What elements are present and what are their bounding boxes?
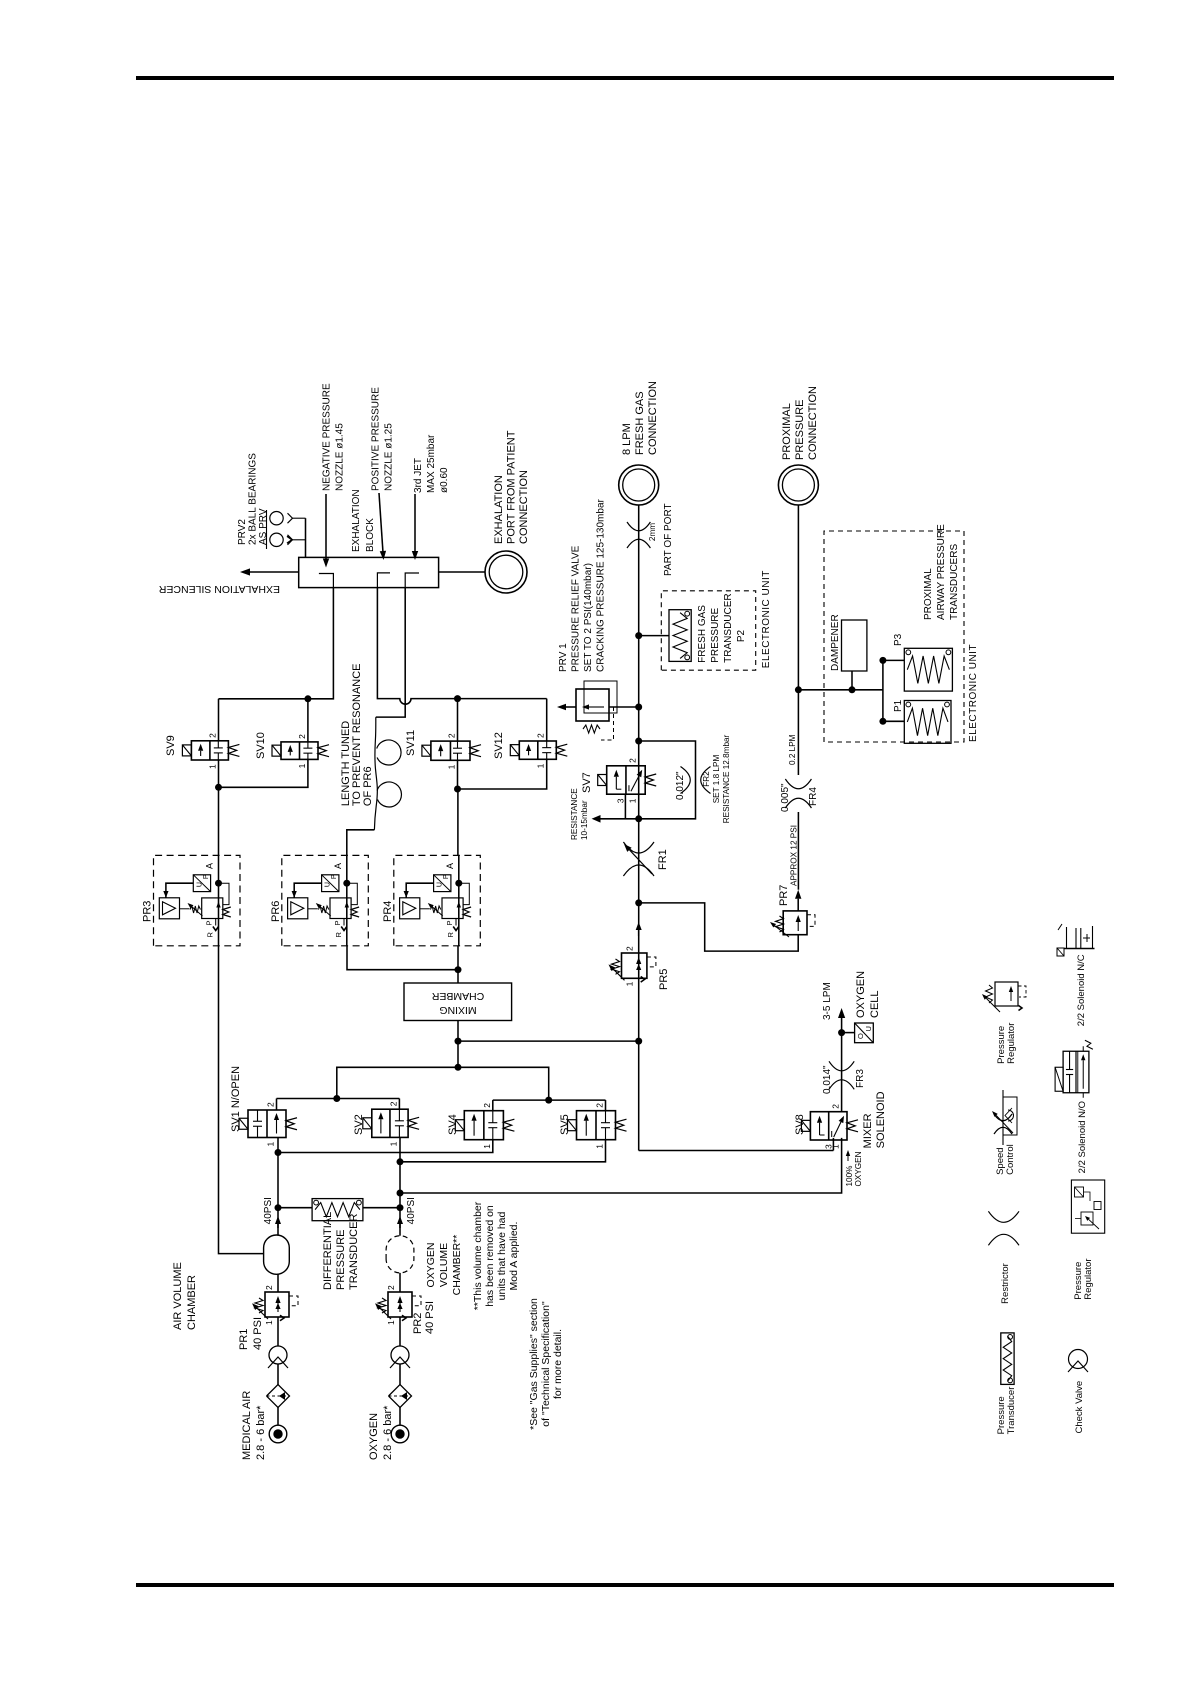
- coiled tube: length tuned line: [374, 717, 377, 830]
- svg-text:0.005": 0.005": [780, 783, 791, 812]
- wire: manifold into electronic unit: [798, 689, 883, 691]
- svg-text:FR4: FR4: [808, 787, 819, 806]
- svg-text:1: 1: [207, 764, 217, 769]
- svg-text:FR3: FR3: [855, 1069, 866, 1088]
- arrow: 3-5 LPM bleed: [841, 1018, 843, 1033]
- svg-text:P3: P3: [893, 633, 904, 646]
- svg-text:2: 2: [386, 1285, 396, 1290]
- feedback loop in PR6: [347, 883, 358, 904]
- P port and R vent in PR4: [445, 919, 459, 938]
- svg-text:R: R: [206, 932, 215, 938]
- solenoid valve SV9: [182, 733, 239, 769]
- electronic unit box (proximal): [824, 531, 964, 742]
- node: PR7 branch junction: [635, 899, 642, 906]
- node: SV11/SV12 port1 junction: [454, 786, 461, 793]
- wire: block to PRV2: [305, 518, 307, 557]
- wire: SV9/SV10 port1 bus: [219, 759, 308, 787]
- svg-text:P2: P2: [736, 629, 747, 642]
- wire: amplifier to spring in PR3: [180, 908, 190, 910]
- svg-text:Check Valve: Check Valve: [1074, 1381, 1085, 1434]
- svg-text:1: 1: [266, 1142, 276, 1147]
- precision regulator assembly PR4 (dashed box): [394, 855, 481, 945]
- svg-text:OXYGEN: OXYGEN: [854, 1151, 863, 1186]
- svg-text:1: 1: [264, 1320, 274, 1325]
- pressure regulator PR5: [609, 946, 656, 986]
- feedback loop in PR4: [459, 883, 470, 904]
- restrictor FR3: [829, 1080, 854, 1090]
- amplifier triangle in PR6: [291, 902, 304, 915]
- oxygen cell: [855, 1023, 874, 1043]
- wire: SV5 port2 stub: [605, 1100, 607, 1111]
- wire: U/P to amplifier in PR6: [294, 883, 321, 898]
- node: oxygen junction to 100% oxygen line: [397, 1190, 404, 1197]
- wire: SV8 port2 to oxygen cell arrow: [841, 1033, 843, 1112]
- legend: pressure transducer: [996, 1333, 1017, 1434]
- svg-text:MAX 25mbar: MAX 25mbar: [426, 434, 437, 493]
- svg-text:PART OF PORT: PART OF PORT: [663, 503, 674, 576]
- restrictor bypass FR2: [639, 741, 711, 819]
- svg-text:1: 1: [628, 798, 638, 803]
- wire: medical air line: [277, 1408, 279, 1426]
- legend: check valve: [1068, 1350, 1088, 1434]
- nozzle: positive pressure nozzle: [377, 573, 390, 588]
- wire: P1 stub: [883, 720, 904, 722]
- leader: negative pressure nozzle: [325, 494, 327, 559]
- svg-text:R: R: [334, 932, 343, 938]
- svg-text:40 PSI: 40 PSI: [252, 1317, 264, 1350]
- node: vent junction on rail: [635, 815, 642, 822]
- adjustable spring in PR4: [428, 903, 443, 916]
- svg-text:RESISTANCE: RESISTANCE: [570, 788, 579, 840]
- exhalation block: [299, 557, 439, 587]
- regulator square in PR4: [442, 898, 463, 919]
- svg-text:1: 1: [482, 1144, 492, 1149]
- pressure regulator PR1: [252, 1285, 298, 1325]
- svg-text:R: R: [446, 932, 455, 938]
- filter: medical air filter: [267, 1385, 290, 1408]
- svg-text:**This volume chamber: **This volume chamber: [472, 1201, 484, 1310]
- svg-text:O: O: [856, 1033, 865, 1039]
- svg-text:CHAMBER: CHAMBER: [186, 1275, 198, 1330]
- oxygen volume chamber (dashed): [386, 1236, 414, 1273]
- node: oxygen junction to SV5 bus: [397, 1158, 404, 1165]
- svg-text:DAMPENER: DAMPENER: [830, 614, 841, 671]
- wire: SV8 port3 stub: [832, 1138, 834, 1151]
- svg-text:0.012": 0.012": [675, 771, 686, 800]
- svg-text:2/2 Solenoid N/C: 2/2 Solenoid N/C: [1076, 954, 1087, 1026]
- wire: manifold to mixing chamber: [457, 1021, 459, 1068]
- svg-text:P: P: [333, 920, 342, 925]
- svg-text:2: 2: [297, 734, 307, 739]
- wire: branch to PR7: [639, 903, 799, 951]
- svg-text:RESISTANCE 12.8mbar: RESISTANCE 12.8mbar: [722, 734, 731, 823]
- node: FR2 right junction: [635, 738, 642, 745]
- wire: P3 stub: [883, 659, 904, 661]
- wire: PR3 A-line to SV9 junction: [218, 787, 220, 855]
- svg-text:Transducer: Transducer: [1006, 1387, 1017, 1435]
- port: fresh gas connection: [619, 465, 659, 505]
- svg-text:CRACKING PRESSURE 125-130mba: CRACKING PRESSURE 125-130mbar: [596, 498, 607, 672]
- svg-text:3rd JET: 3rd JET: [413, 458, 424, 493]
- node: manifold junction: [455, 1064, 462, 1071]
- svg-text:OXYGEN: OXYGEN: [425, 1243, 437, 1288]
- svg-text:SOLENOID: SOLENOID: [875, 1091, 887, 1148]
- svg-text:1: 1: [388, 1141, 398, 1146]
- wire: PR3 A-line through box: [218, 855, 220, 945]
- svg-text:2: 2: [831, 1104, 841, 1109]
- pressure regulator PR7: [770, 911, 815, 937]
- feedback loop in PR3: [219, 883, 230, 904]
- solenoid valve SV7: [598, 758, 657, 803]
- wire: SV1 port2 stub: [276, 1099, 278, 1111]
- port: proximal pressure connection: [778, 465, 818, 505]
- svg-text:SV9: SV9: [165, 735, 177, 756]
- wire: SV7 port3 stub: [624, 794, 626, 819]
- svg-text:40PSI: 40PSI: [263, 1197, 274, 1224]
- svg-text:PRESSURE: PRESSURE: [335, 1229, 347, 1290]
- node: SV11 junction on manifold B: [454, 695, 461, 702]
- nozzle: 3rd jet nozzle: [405, 573, 419, 588]
- svg-text:A: A: [205, 863, 215, 869]
- restrictor: 2mm part of port: [627, 539, 650, 548]
- node: dampener junction: [849, 686, 856, 693]
- svg-text:BLOCK: BLOCK: [365, 518, 376, 552]
- svg-text:VOLUME: VOLUME: [438, 1243, 450, 1287]
- svg-text:PR7: PR7: [778, 885, 790, 906]
- svg-text:Control: Control: [1005, 1144, 1016, 1175]
- svg-text:100%: 100%: [845, 1166, 854, 1187]
- svg-text:2: 2: [536, 733, 546, 738]
- svg-text:1: 1: [297, 763, 307, 768]
- wire: PR4 A-line through box: [458, 855, 460, 945]
- svg-text:OXYGEN: OXYGEN: [855, 971, 867, 1018]
- svg-text:ø0.60: ø0.60: [439, 467, 450, 493]
- svg-text:SV2: SV2: [353, 1114, 365, 1135]
- spring below regulator in PR4: [463, 907, 471, 917]
- source: oxygen supply: [391, 1425, 409, 1443]
- svg-text:CHAMBER: CHAMBER: [431, 990, 484, 1002]
- svg-text:10-15mbar: 10-15mbar: [580, 800, 589, 840]
- spring below regulator in PR3: [223, 907, 231, 917]
- svg-text:0.2 LPM: 0.2 LPM: [788, 734, 797, 765]
- svg-text:SV10: SV10: [255, 732, 267, 759]
- solenoid valve SV12: [510, 733, 567, 768]
- wire: U/P to amplifier in PR3: [166, 883, 193, 898]
- node: PR6 branch junction: [455, 966, 462, 973]
- wire: SV11/SV12 port1 bus: [458, 759, 547, 789]
- P port and R vent in PR6: [333, 919, 347, 938]
- node: SV10 junction on manifold A: [304, 695, 311, 702]
- svg-text:EXHALATION SILENCER: EXHALATION SILENCER: [158, 583, 280, 595]
- svg-text:units that have had: units that have had: [496, 1211, 508, 1300]
- wire: air bus down to SV4 port1: [278, 1140, 493, 1153]
- node: fresh gas rail: [638, 505, 640, 1151]
- wire: PR6 output branch: [347, 946, 458, 970]
- top rule: [136, 76, 1114, 80]
- svg-text:EXHALATION: EXHALATION: [351, 489, 362, 552]
- svg-text:of "Technical Specification": of "Technical Specification": [540, 1301, 552, 1427]
- svg-text:POSITIVE PRESSURE: POSITIVE PRESSURE: [371, 387, 382, 491]
- variable restrictor FR1: [623, 842, 654, 876]
- pressure transducer P1: [904, 701, 951, 744]
- svg-text:DIFFERENTIAL: DIFFERENTIAL: [322, 1212, 334, 1290]
- wire: SV12 port2 stub: [546, 699, 548, 741]
- svg-text:FR1: FR1: [657, 849, 669, 870]
- node: oxygen junction to DPT: [397, 1204, 404, 1211]
- svg-text:PR2: PR2: [412, 1313, 424, 1334]
- wire: SV9 port2 stub: [218, 699, 220, 741]
- dampener: [842, 620, 867, 690]
- svg-text:3: 3: [615, 798, 625, 803]
- svg-text:A: A: [445, 863, 455, 869]
- amplifier triangle in PR4: [403, 902, 416, 915]
- svg-text:PRV2: PRV2: [237, 519, 248, 545]
- svg-text:1: 1: [536, 763, 546, 768]
- adjustable spring in PR3: [188, 903, 203, 916]
- node: P3 branch: [879, 657, 886, 664]
- amplifier box in PR3: [159, 898, 179, 919]
- solenoid valve SV4: [455, 1103, 514, 1149]
- svg-text:P1: P1: [893, 699, 904, 712]
- legend: restrictor: [988, 1211, 1019, 1304]
- vent arrow: SV7 exhaust (resistance 10-15mbar): [592, 815, 639, 823]
- wire: SV2 port2 stub: [398, 1099, 400, 1110]
- svg-text:PRESSURE: PRESSURE: [794, 399, 806, 460]
- legend: pressure regulator: [982, 982, 1026, 1064]
- wire: block to patient port: [439, 571, 485, 573]
- svg-text:1: 1: [625, 981, 635, 986]
- node: air junction to SV bus: [275, 1149, 282, 1156]
- solenoid valve SV8: [801, 1104, 858, 1149]
- regulator square in PR3: [202, 898, 223, 919]
- svg-text:NOZZLE ø1.25: NOZZLE ø1.25: [384, 423, 395, 491]
- svg-text:SET 1.8 LPM: SET 1.8 LPM: [712, 755, 721, 804]
- wire: oxygen line: [399, 1408, 401, 1426]
- svg-text:APPROX 12 PSI: APPROX 12 PSI: [790, 825, 799, 886]
- svg-text:Mod A applied.: Mod A applied.: [508, 1222, 520, 1291]
- legend: speed control: [992, 1090, 1017, 1175]
- svg-text:2mm: 2mm: [648, 523, 657, 541]
- check valve: oxygen check valve: [390, 1346, 410, 1368]
- legend: 2/2 solenoid N/O: [1055, 1040, 1093, 1173]
- wire: PR6 A-line out to coil: [347, 830, 375, 856]
- svg-text:40 PSI: 40 PSI: [424, 1301, 436, 1334]
- svg-text:FRESH GAS: FRESH GAS: [697, 605, 708, 663]
- legend: 2/2 solenoid N/C: [1057, 924, 1095, 1026]
- wire: SV11 port2 stub: [457, 699, 459, 742]
- wire: amplifier to spring in PR6: [308, 908, 318, 910]
- svg-text:1: 1: [386, 1320, 396, 1325]
- svg-text:PRV 1: PRV 1: [558, 643, 569, 672]
- wire: PR6 A-line through box: [346, 855, 348, 945]
- svg-text:SV1 N/OPEN: SV1 N/OPEN: [230, 1066, 242, 1132]
- node: P2 junction on rail: [635, 632, 642, 639]
- svg-text:MEDICAL AIR: MEDICAL AIR: [241, 1391, 253, 1460]
- svg-text:8 LPM: 8 LPM: [621, 423, 633, 455]
- svg-text:PRESSURE RELIEF VALVE: PRESSURE RELIEF VALVE: [571, 545, 582, 672]
- leader: 3rd jet nozzle: [414, 494, 416, 551]
- svg-text:2.8 - 6 bar*: 2.8 - 6 bar*: [382, 1405, 394, 1460]
- node: oxygen cell junction: [838, 1029, 845, 1036]
- wire: chamber branch down to rail: [458, 1040, 639, 1042]
- svg-text:2: 2: [264, 1285, 274, 1290]
- differential pressure transducer: [278, 1199, 400, 1221]
- regulator square in PR6: [330, 898, 351, 919]
- node: rail junction at chamber branch: [635, 1038, 642, 1045]
- node: SV4/SV5 bus junction: [545, 1097, 552, 1104]
- wire: SV10 port2 stub: [307, 699, 309, 742]
- node: PR4 A junction: [455, 880, 462, 887]
- solenoid valve SV5: [568, 1103, 627, 1149]
- svg-text:TRANSDUCERS: TRANSDUCERS: [949, 544, 960, 620]
- svg-text:2: 2: [207, 733, 217, 738]
- wire: manifold A (SV9/SV10 to negative pressure nozzle): [219, 588, 334, 699]
- svg-text:NEGATIVE PRESSURE: NEGATIVE PRESSURE: [322, 383, 333, 491]
- electronic unit box (fresh gas): [661, 591, 755, 670]
- svg-text:2.8 - 6 bar*: 2.8 - 6 bar*: [255, 1405, 267, 1460]
- svg-text:P: P: [203, 874, 210, 879]
- svg-text:AIRWAY PRESSURE: AIRWAY PRESSURE: [936, 524, 947, 620]
- wire: SV9 port1 stub: [218, 760, 220, 787]
- svg-text:A: A: [333, 863, 343, 869]
- adjustable spring in PR6: [316, 903, 331, 916]
- wire: P1/P3 manifold: [882, 660, 884, 721]
- svg-text:FR2: FR2: [702, 771, 711, 787]
- svg-text:2/2 Solenoid N/O: 2/2 Solenoid N/O: [1077, 1101, 1088, 1173]
- svg-text:40PSI: 40PSI: [406, 1197, 417, 1224]
- svg-text:TRANSDUCER: TRANSDUCER: [723, 593, 734, 662]
- svg-text:CONNECTION: CONNECTION: [807, 386, 819, 460]
- svg-text:2: 2: [595, 1103, 605, 1108]
- svg-text:PR6: PR6: [270, 901, 282, 922]
- wire: junction to oxygen cell: [845, 1032, 855, 1034]
- svg-text:2: 2: [625, 946, 635, 951]
- svg-text:CELL: CELL: [869, 990, 881, 1018]
- solenoid valve SV2: [363, 1101, 419, 1146]
- svg-text:AIR VOLUME: AIR VOLUME: [172, 1262, 184, 1330]
- svg-text:P: P: [443, 874, 450, 879]
- svg-text:PR1: PR1: [238, 1329, 250, 1350]
- amplifier box in PR6: [288, 898, 308, 919]
- svg-text:ELECTRONIC UNIT: ELECTRONIC UNIT: [968, 644, 979, 742]
- U/P converter in PR6: [322, 874, 339, 892]
- amplifier triangle in PR3: [163, 902, 176, 915]
- node: junction to rail: [455, 1038, 462, 1045]
- svg-text:AS PRV: AS PRV: [258, 508, 269, 545]
- svg-text:SET TO 2 PSI(140mbar): SET TO 2 PSI(140mbar): [583, 563, 594, 672]
- svg-text:*See "Gas Supplies" section: *See "Gas Supplies" section: [528, 1298, 540, 1430]
- svg-text:PROXIMAL: PROXIMAL: [781, 403, 793, 460]
- svg-text:OXYGEN: OXYGEN: [368, 1413, 380, 1460]
- wire: mixing chamber to PR4/PR6 outputs: [457, 946, 459, 983]
- svg-text:U: U: [437, 882, 444, 887]
- svg-text:EXHALATION: EXHALATION: [493, 475, 505, 544]
- svg-text:2x BALL BEARINGS: 2x BALL BEARINGS: [248, 453, 259, 545]
- node: P1 branch: [879, 718, 886, 725]
- svg-text:U: U: [864, 1026, 873, 1031]
- pressure transducer P3: [904, 648, 952, 691]
- spring below regulator in PR6: [351, 907, 359, 917]
- arrow: air flow arrow: [277, 1224, 279, 1228]
- vent arrow: PRV1 exhaust: [566, 706, 576, 708]
- svg-text:SV8: SV8: [794, 1114, 806, 1135]
- node: PR6 A junction: [343, 880, 350, 887]
- svg-text:CONNECTION: CONNECTION: [518, 470, 530, 544]
- precision regulator assembly PR6 (dashed box): [282, 855, 369, 945]
- svg-text:SV5: SV5: [559, 1114, 571, 1135]
- svg-text:P: P: [445, 920, 454, 925]
- svg-text:1: 1: [447, 764, 457, 769]
- svg-text:PR5: PR5: [658, 969, 670, 990]
- wire: oxygen bus down to SV5 port1: [400, 1140, 606, 1162]
- svg-text:Regulator: Regulator: [1083, 1258, 1094, 1299]
- svg-text:1: 1: [595, 1144, 605, 1149]
- svg-text:OF PR6: OF PR6: [362, 766, 374, 806]
- svg-text:CHAMBER**: CHAMBER**: [451, 1235, 463, 1296]
- relief valve PRV2 (2x ball bearings): [267, 510, 306, 549]
- wire: manifold B (SV11/SV12 to positive pressure nozzle) with hop: [377, 588, 546, 705]
- svg-text:SV7: SV7: [581, 772, 593, 793]
- svg-text:Regulator: Regulator: [1006, 1023, 1017, 1064]
- svg-text:CONNECTION: CONNECTION: [647, 381, 659, 455]
- svg-text:MIXING: MIXING: [439, 1004, 476, 1016]
- svg-text:TRANSDUCER: TRANSDUCER: [348, 1214, 360, 1290]
- amplifier box in PR4: [400, 898, 420, 919]
- wire: rail corner down to SV8 port3: [639, 1150, 834, 1152]
- wire: SV4 port2 stub: [492, 1100, 494, 1111]
- node: proximal junction to electronic unit: [795, 686, 802, 693]
- svg-text:Restrictor: Restrictor: [1000, 1263, 1011, 1304]
- wire: SV11 port1 stub: [457, 760, 459, 789]
- bottom rule: [136, 1583, 1114, 1587]
- restrictor FR4: [785, 798, 811, 808]
- U/P converter in PR4: [434, 874, 451, 892]
- solenoid valve SV1: [239, 1102, 297, 1147]
- nozzle: negative pressure nozzle: [319, 574, 334, 588]
- arrow: PR7 output arrow: [797, 899, 799, 911]
- wire: 100% oxygen line (SV8 port1 to oxygen rail): [399, 1138, 841, 1193]
- check valve: medical air check valve: [268, 1346, 288, 1368]
- leader: positive pressure nozzle: [379, 493, 383, 551]
- fresh gas pressure transducer P2: [639, 610, 692, 662]
- svg-text:FRESH GAS: FRESH GAS: [634, 391, 646, 455]
- precision regulator assembly PR3 (dashed box): [154, 855, 241, 945]
- arrow: 100% oxygen flow mark: [847, 1156, 849, 1161]
- wire: bus to manifold: [337, 1067, 549, 1100]
- node: SV1/SV2 bus junction: [333, 1095, 340, 1102]
- wire: U/P to amplifier in PR4: [406, 883, 433, 898]
- svg-text:2: 2: [266, 1102, 276, 1107]
- wire: PR4 A-line to SV11 junction: [457, 789, 459, 855]
- svg-text:PR3: PR3: [142, 901, 154, 922]
- svg-text:2: 2: [447, 733, 457, 738]
- arrow: exhalation to silencer: [250, 571, 299, 573]
- wire: PR3 output to air volume chamber: [219, 946, 264, 1254]
- svg-text:3-5 LPM: 3-5 LPM: [822, 982, 833, 1020]
- svg-text:PORT FROM PATIENT: PORT FROM PATIENT: [506, 430, 518, 544]
- mixing chamber: [404, 983, 512, 1021]
- svg-text:PROXIMAL: PROXIMAL: [923, 568, 934, 620]
- wire: SV1/SV2 bus: [277, 1098, 400, 1100]
- svg-text:NOZZLE ø1.45: NOZZLE ø1.45: [335, 423, 346, 491]
- solenoid valve SV11: [422, 733, 481, 769]
- node: air junction to DPT: [275, 1204, 282, 1211]
- wire: amplifier to spring in PR4: [420, 908, 430, 910]
- arrow: oxygen flow arrow: [399, 1224, 401, 1228]
- source: medical air supply: [269, 1425, 287, 1443]
- filter: oxygen filter: [389, 1385, 412, 1408]
- node: SV9/SV10 port1 junction: [215, 784, 222, 791]
